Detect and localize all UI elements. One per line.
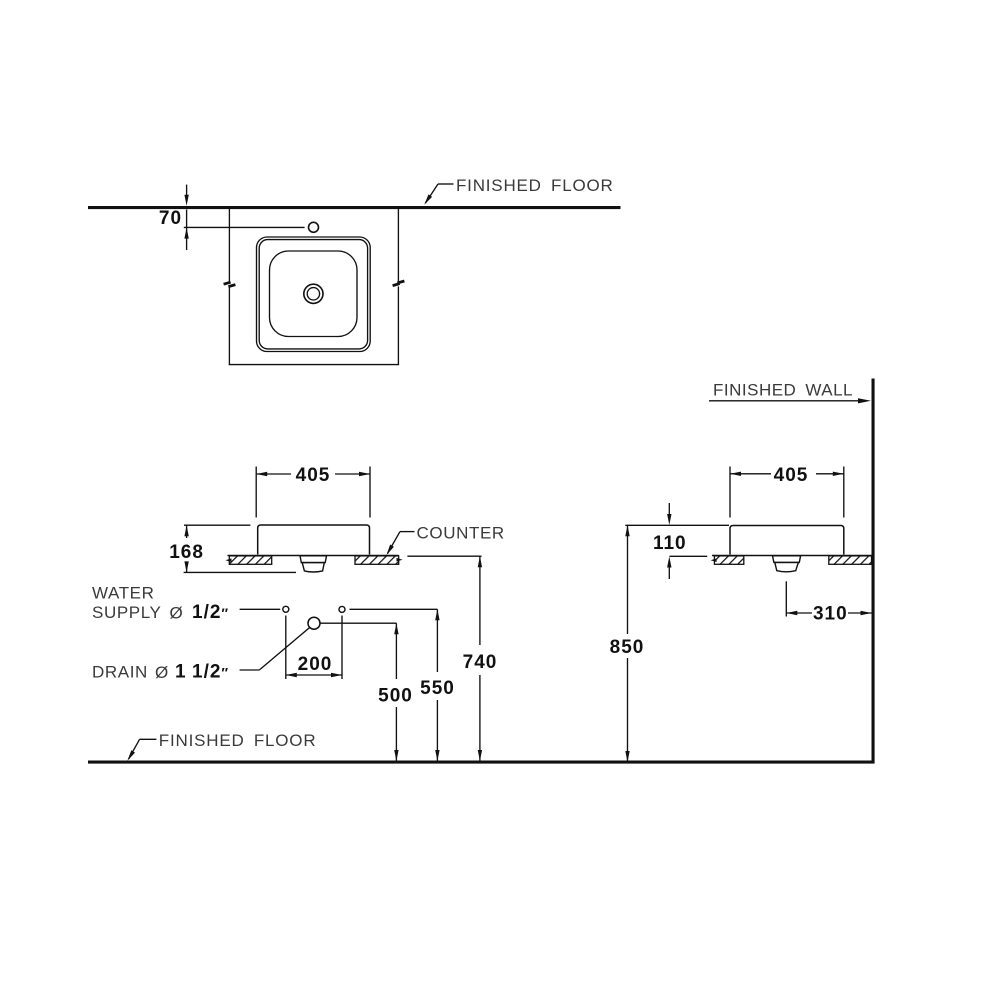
counter top line (left view) bbox=[228, 555, 399, 557]
dim 405 (right) extension lines bbox=[729, 467, 731, 518]
svg-text:500: 500 bbox=[378, 686, 413, 707]
svg-text:1/2″: 1/2″ bbox=[192, 662, 229, 683]
finished wall underline+arrow bbox=[709, 400, 862, 402]
dim 550 line+arrows bbox=[436, 609, 438, 672]
counter outline (plan) top/bottom edges bbox=[228, 208, 230, 282]
drain level line bbox=[320, 622, 396, 624]
water supply hole left bbox=[283, 606, 289, 612]
dim 310 extension line (below drain) bbox=[785, 581, 787, 616]
faucet hole (plan) bbox=[309, 222, 319, 232]
svg-text:Ø: Ø bbox=[170, 604, 183, 623]
dim 70 extension+arrows bbox=[186, 185, 188, 196]
dim 405 (right view) line+arrows bbox=[730, 473, 771, 475]
break mark left side bbox=[224, 282, 231, 284]
svg-text:550: 550 bbox=[420, 678, 455, 699]
dim 110 bottom extension line bbox=[670, 555, 708, 557]
dim 405 (left) extension lines bbox=[255, 467, 257, 518]
label COUNTER leader bbox=[400, 531, 415, 533]
svg-text:110: 110 bbox=[653, 533, 687, 554]
dim 500 line+arrows bbox=[395, 623, 397, 679]
svg-text:1: 1 bbox=[175, 662, 187, 683]
water supply hole right bbox=[339, 606, 345, 612]
counter top line (right view) bbox=[712, 555, 872, 557]
svg-text:168: 168 bbox=[169, 542, 204, 563]
svg-text:1/2″: 1/2″ bbox=[192, 602, 229, 623]
dim 200 line+arrows bbox=[286, 674, 342, 676]
svg-text:FINISHED FLOOR: FINISHED FLOOR bbox=[159, 731, 317, 750]
dim 850 line+arrows bbox=[627, 525, 629, 634]
svg-text:FINISHED WALL: FINISHED WALL bbox=[713, 381, 853, 400]
drain (plan) outer circle bbox=[304, 284, 323, 303]
svg-text:DRAIN: DRAIN bbox=[92, 663, 148, 682]
svg-text:WATER: WATER bbox=[92, 584, 155, 603]
svg-text:COUNTER: COUNTER bbox=[417, 524, 505, 543]
basin (left elevation) bbox=[258, 525, 370, 555]
basin rim inner (plan) bbox=[259, 240, 367, 349]
svg-text:200: 200 bbox=[298, 654, 333, 675]
tiny section arrow right (left view) bbox=[397, 558, 403, 562]
svg-text:740: 740 bbox=[463, 652, 498, 673]
svg-text:405: 405 bbox=[774, 465, 809, 486]
basin (right elevation) bbox=[730, 526, 844, 555]
break mark right side bbox=[393, 284, 400, 286]
svg-text:70: 70 bbox=[159, 208, 182, 229]
drain leader bbox=[240, 669, 260, 671]
finished floor line (plan view, thick) bbox=[88, 206, 621, 209]
dim 740 extension line bbox=[407, 555, 481, 557]
svg-text:850: 850 bbox=[610, 637, 645, 658]
basin bowl (plan) bbox=[270, 251, 358, 337]
dim 405 (left view) line+arrows bbox=[256, 473, 291, 475]
tiny section arrow (right view) bbox=[711, 558, 717, 562]
dim 168 extension lines bbox=[184, 524, 250, 526]
dim 110 top extension line (shared with 850) bbox=[625, 524, 729, 526]
water supply line bbox=[240, 608, 281, 610]
drain fitting (left view) bbox=[300, 556, 327, 563]
dim 200 extension lines bbox=[285, 616, 287, 680]
dim 310 line+arrows bbox=[786, 612, 812, 614]
label FINISHED FLOOR (bottom) leader bbox=[140, 738, 157, 740]
svg-text:FINISHED FLOOR: FINISHED FLOOR bbox=[456, 176, 614, 195]
svg-text:310: 310 bbox=[813, 604, 848, 625]
dim 110 arrows bbox=[668, 503, 670, 515]
svg-text:405: 405 bbox=[296, 465, 331, 486]
counter hatch right box (left view) bbox=[355, 556, 399, 564]
counter hatch right box (right view) bbox=[829, 556, 872, 564]
finished floor line (elevation, thick) bbox=[88, 761, 875, 764]
dim 168 line+arrows bbox=[186, 525, 188, 538]
finished wall line (thick) bbox=[872, 379, 875, 764]
drain (plan) inner circle bbox=[307, 288, 319, 300]
drain fitting (right view) bbox=[773, 556, 801, 563]
basin rim outer (plan) bbox=[257, 237, 371, 352]
counter hatch left box (left view) bbox=[229, 556, 271, 564]
svg-text:Ø: Ø bbox=[155, 663, 168, 682]
label FINISHED FLOOR (top) leader with arrow bbox=[438, 183, 454, 185]
tiny section arrow left (left view) bbox=[226, 558, 232, 562]
drain hole circle (left view) bbox=[308, 617, 320, 629]
counter hatch left box (right view) bbox=[714, 556, 743, 564]
dim 740 line+arrows bbox=[479, 556, 481, 645]
svg-text:SUPPLY: SUPPLY bbox=[92, 603, 161, 622]
